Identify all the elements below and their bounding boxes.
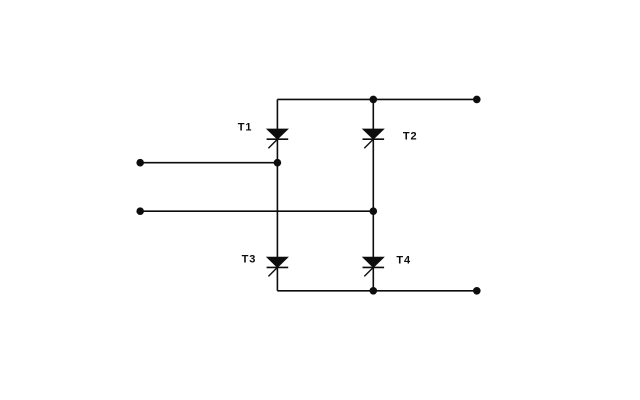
wire right column (T2-T4 branch) xyxy=(372,99,374,290)
terminal dot right bottom xyxy=(473,287,481,295)
junction bottom rail / T4 branch xyxy=(370,287,378,295)
wire AC input upper xyxy=(140,162,277,164)
svg-text:T3: T3 xyxy=(242,254,257,266)
thyristor T1 xyxy=(267,129,289,148)
terminal dot left lower xyxy=(136,207,144,215)
thyristor T3 xyxy=(267,257,289,276)
wire left column (T1-T3 branch) xyxy=(276,99,278,290)
junction upper input / T1 branch xyxy=(274,159,282,167)
thyristor T4 xyxy=(363,257,385,276)
junction lower input / T2 branch xyxy=(370,207,378,215)
svg-text:T1: T1 xyxy=(238,121,253,133)
terminal dot right top xyxy=(473,96,481,104)
wire bottom rail xyxy=(277,290,476,292)
junction top rail / T2 branch xyxy=(370,96,378,104)
svg-text:T4: T4 xyxy=(396,254,411,266)
svg-text:T2: T2 xyxy=(403,130,418,142)
terminal dot left upper xyxy=(136,159,144,167)
wire top rail xyxy=(277,98,476,100)
wire AC input lower xyxy=(140,210,373,212)
thyristor T2 xyxy=(363,129,385,148)
